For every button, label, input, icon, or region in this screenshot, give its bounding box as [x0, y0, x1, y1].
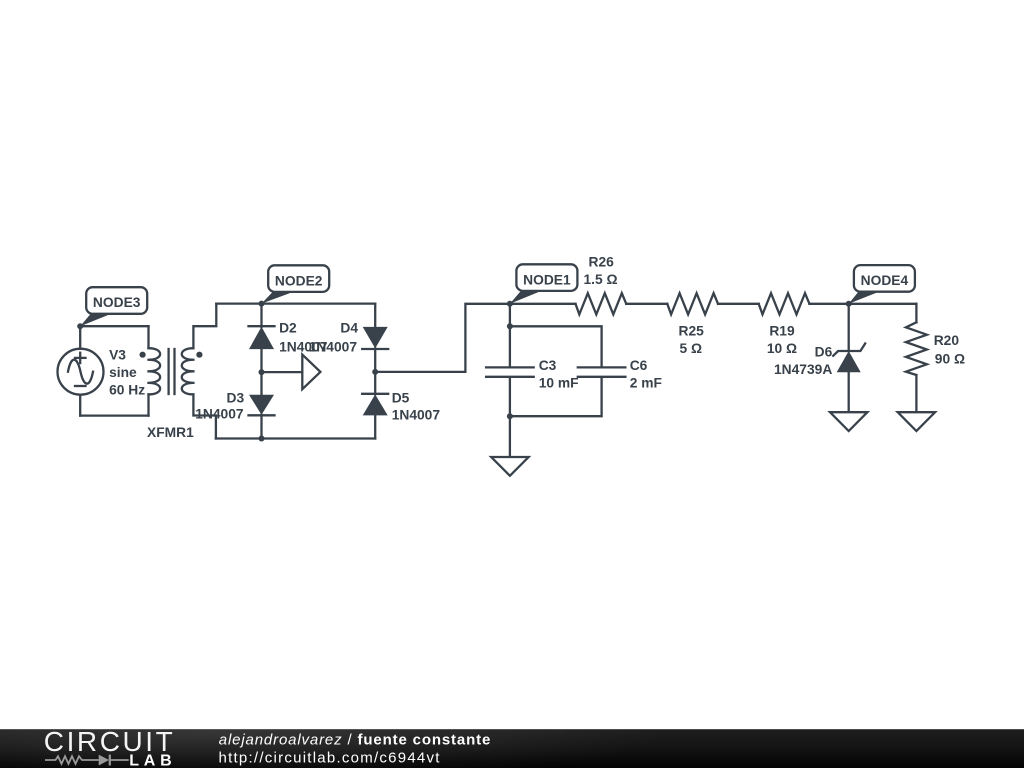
svg-text:http://circuitlab.com/c6944vt: http://circuitlab.com/c6944vt [219, 750, 441, 767]
svg-text:5 Ω: 5 Ω [680, 341, 703, 356]
svg-text:D4: D4 [340, 321, 358, 336]
svg-text:R19: R19 [769, 323, 795, 338]
svg-text:1N4007: 1N4007 [195, 406, 244, 421]
svg-text:D2: D2 [279, 321, 297, 336]
svg-text:1N4739A: 1N4739A [774, 362, 832, 377]
svg-text:NODE4: NODE4 [861, 273, 909, 288]
svg-text:D5: D5 [392, 390, 410, 405]
svg-text:R20: R20 [934, 333, 960, 348]
svg-text:LAB: LAB [129, 753, 176, 768]
svg-text:D3: D3 [227, 390, 245, 405]
svg-text:C3: C3 [539, 358, 557, 373]
svg-text:V3: V3 [109, 348, 126, 363]
svg-text:10 Ω: 10 Ω [767, 341, 797, 356]
svg-text:R26: R26 [589, 254, 615, 269]
svg-text:NODE2: NODE2 [275, 273, 323, 288]
svg-text:C6: C6 [630, 358, 648, 373]
svg-text:R25: R25 [679, 323, 705, 338]
svg-text:1N4007: 1N4007 [392, 407, 441, 422]
svg-text:XFMR1: XFMR1 [147, 425, 194, 440]
svg-text:D6: D6 [815, 345, 833, 360]
svg-text:1N4007: 1N4007 [309, 340, 358, 355]
svg-text:90 Ω: 90 Ω [935, 352, 965, 367]
svg-text:60 Hz: 60 Hz [109, 383, 145, 398]
svg-text:NODE1: NODE1 [523, 272, 571, 287]
svg-text:sine: sine [109, 365, 137, 380]
svg-text:NODE3: NODE3 [93, 295, 141, 310]
svg-text:2 mF: 2 mF [630, 375, 662, 390]
svg-text:alejandroalvarez / fuente cons: alejandroalvarez / fuente constante [219, 732, 491, 749]
svg-text:10 mF: 10 mF [539, 375, 579, 390]
svg-text:1.5 Ω: 1.5 Ω [583, 272, 617, 287]
